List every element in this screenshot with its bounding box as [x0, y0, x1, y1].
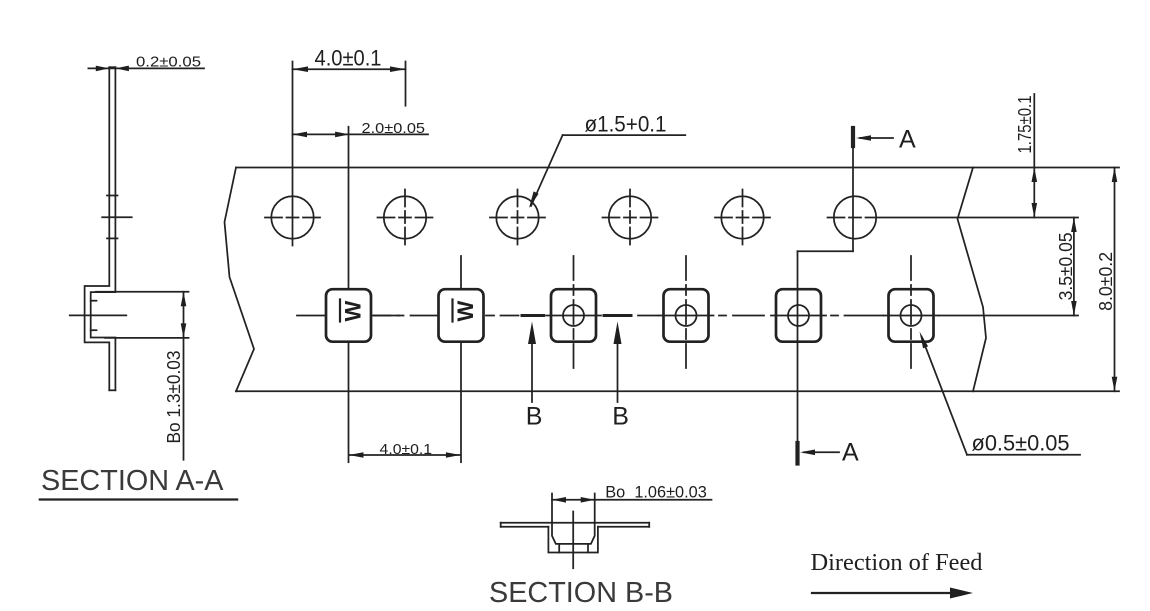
SECTION B-B pocket inner profile: [552, 523, 595, 544]
hole row extension line to right dimensions: [884, 217, 1078, 219]
sprocket hole 3: [490, 190, 545, 246]
SECTION A-A strip inner line: [91, 67, 116, 390]
section A-A cut line top: [798, 128, 854, 443]
svg-text:3.5±0.05: 3.5±0.05: [1056, 232, 1076, 300]
dimension 4.0±0.1 bottom: line and arrows: [349, 452, 461, 458]
svg-text:Bo 1.3±0.03: Bo 1.3±0.03: [164, 351, 184, 444]
pocket P4: [659, 256, 714, 369]
sprocket hole 5: [715, 190, 770, 246]
SECTION B-B center line: [572, 512, 574, 569]
dimension Bo 1.3±0.03: extension lines: [96, 292, 189, 338]
svg-text:B: B: [526, 403, 543, 431]
SECTION A-A title underline: [40, 498, 237, 500]
pocket P1 component marking W: [340, 300, 366, 322]
section A-A cut line bottom thick tick: [795, 443, 799, 464]
sprocket hole 1: [265, 62, 320, 246]
svg-text:2.0±0.05: 2.0±0.05: [362, 120, 426, 137]
dimension 4.0±0.1 top: line and arrows: [293, 62, 406, 106]
dimension 8.0±0.2: line and arrows: [1112, 168, 1118, 392]
SECTION A-A pocket ledge ticks: [91, 301, 97, 331]
pocket P2 component marking W: [453, 300, 479, 322]
SECTION B-B tape top surface: [501, 522, 650, 524]
pocket P2: [439, 256, 484, 462]
SECTION B-B tape bottom surface left: [501, 526, 549, 528]
dimension Bo 1.06±0.03: line and arrows: [552, 497, 712, 503]
dimension 0.2±0.05: line and arrows: [88, 66, 204, 72]
sprocket hole 6: [828, 196, 883, 238]
svg-text:B: B: [612, 403, 629, 431]
center line dash-dot between P5 and P6: [831, 315, 884, 317]
SECTION A-A strip caps: [109, 67, 115, 390]
dimension 1.75±0.1: line and arrows: [1032, 94, 1038, 218]
center line dash-dot between P2 and P3: [486, 315, 519, 317]
dimension 3.5±0.05: line and arrows: [1071, 218, 1077, 316]
Direction of Feed arrow: [812, 588, 973, 599]
center line dash-dot between P4 and P5: [719, 315, 764, 317]
arrow B left: [528, 322, 536, 403]
svg-text:W: W: [341, 301, 366, 322]
arrow A bottom: [800, 450, 839, 456]
left break line: [225, 168, 255, 392]
sprocket hole 2: [378, 190, 433, 246]
center line dash between B bar and P4: [638, 315, 658, 317]
svg-text:A: A: [842, 439, 859, 467]
pocket row extension line to right dimensions: [939, 315, 1079, 317]
pocket P1: [297, 127, 399, 462]
svg-text:8.0±0.2: 8.0±0.2: [1096, 252, 1116, 311]
SECTION A-A pocket center line: [70, 314, 127, 316]
svg-text:A: A: [899, 126, 916, 154]
SECTION B-B pocket step ticks: [559, 544, 588, 553]
SECTION A-A hole break ticks: [107, 196, 118, 239]
svg-text:Direction of Feed: Direction of Feed: [811, 550, 983, 576]
pocket P3: [546, 256, 601, 369]
svg-text:ø1.5+0.1: ø1.5+0.1: [585, 112, 667, 137]
SECTION B-B tape end caps: [501, 523, 650, 527]
svg-text:1.75±0.1: 1.75±0.1: [1015, 96, 1035, 154]
section B cut bar left: [522, 314, 544, 317]
dimension Bo 1.3±0.03: line and arrows: [181, 292, 187, 460]
pocket P6: [884, 256, 939, 369]
dimension 2.0±0.05: line and arrows: [293, 132, 429, 138]
svg-text:SECTION A-A: SECTION A-A: [41, 465, 224, 497]
leader ø0.5±0.05: [920, 332, 1081, 455]
dimension Bo 1.06±0.03: extension lines: [552, 494, 595, 523]
tape bottom edge: [236, 390, 1119, 392]
center line dash-dot between P1 and P2: [374, 315, 437, 317]
svg-text:SECTION B-B: SECTION B-B: [489, 577, 673, 609]
section B cut bar right: [604, 314, 631, 317]
arrow A top: [856, 135, 893, 141]
sprocket hole 4: [603, 190, 658, 246]
arrow B right: [614, 322, 622, 403]
right break line: [958, 168, 987, 392]
svg-text:ø0.5±0.05: ø0.5±0.05: [972, 431, 1070, 456]
svg-text:0.2±0.05: 0.2±0.05: [136, 54, 201, 71]
pocket P5: [771, 289, 826, 342]
svg-text:4.0±0.1: 4.0±0.1: [380, 441, 433, 458]
SECTION A-A strip outer line: [85, 67, 110, 390]
tape top edge: [236, 167, 1119, 169]
svg-text:4.0±0.1: 4.0±0.1: [315, 46, 382, 71]
SECTION A-A hole center line: [102, 216, 132, 218]
svg-text:Bo 1.06±0.03: Bo 1.06±0.03: [605, 483, 707, 502]
SECTION B-B pocket outer profile: [548, 527, 598, 553]
leader ø1.5+0.1: [529, 135, 685, 208]
SECTION B-B tape bottom surface right: [598, 526, 649, 528]
svg-text:W: W: [453, 301, 478, 322]
